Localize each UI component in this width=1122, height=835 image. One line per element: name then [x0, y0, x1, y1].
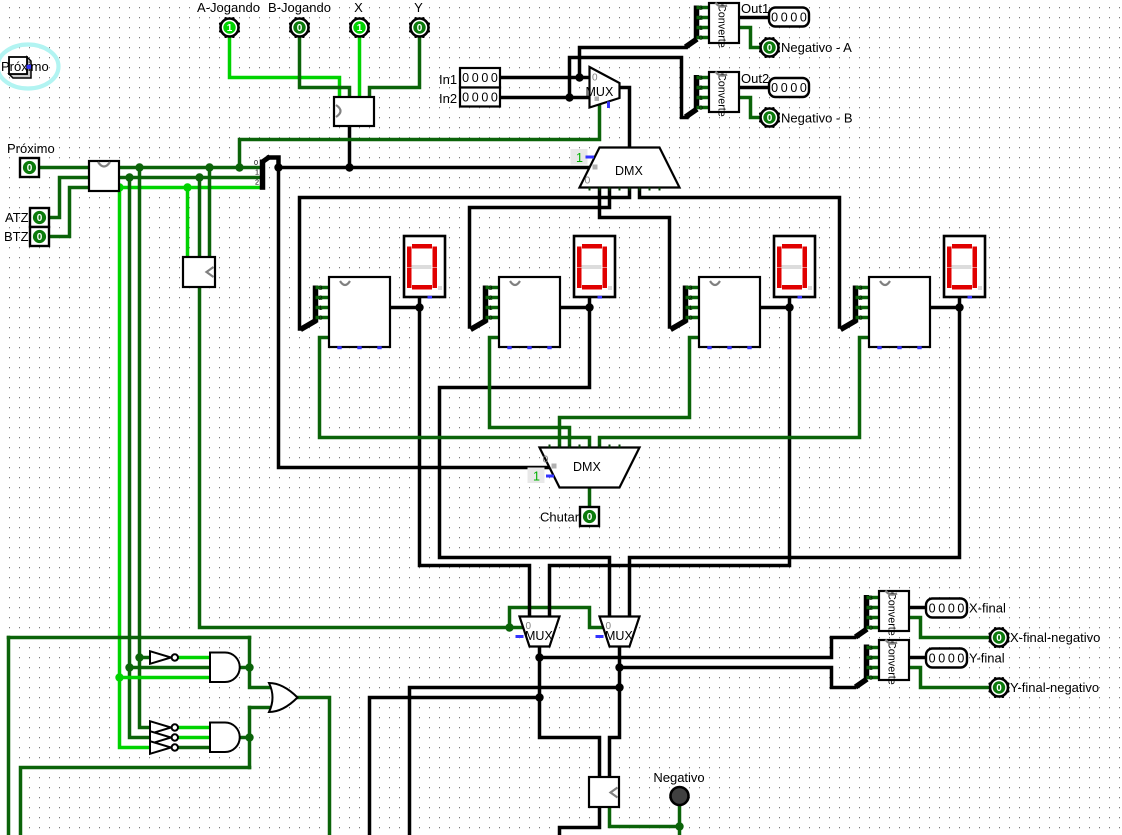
svg-text:0: 0 — [37, 232, 43, 243]
svg-text:Converte: Converte — [716, 4, 728, 48]
demux DMX2 — [540, 448, 640, 488]
wire AND2 out to OR in2 — [250, 706, 270, 710]
svg-text:0: 0 — [767, 113, 773, 124]
svg-text:X: X — [354, 0, 363, 15]
svg-text:0: 0 — [689, 315, 693, 322]
wire MUX1 select — [240, 104, 600, 168]
junction at 119.5,677.5 — [115, 673, 123, 681]
wire In1 to MUX1 — [500, 76, 590, 80]
splitter SP4 for register R4 — [853, 286, 859, 323]
wire NOT2 out to AND2 — [178, 726, 210, 730]
wire 7seg4 stub — [958, 296, 962, 308]
svg-text:0: 0 — [462, 71, 469, 85]
wire NOT3 out to AND2 — [178, 736, 210, 740]
not gate NOT2 — [150, 721, 171, 734]
svg-text:Negativo - B: Negativo - B — [781, 111, 853, 126]
svg-text:0: 0 — [996, 633, 1002, 644]
register R3 — [699, 277, 760, 347]
wire 7seg2 stub — [588, 296, 592, 308]
svg-text:0: 0 — [37, 213, 43, 224]
wire In2 to MUX1 — [500, 96, 590, 100]
wire reg4 out — [930, 306, 960, 310]
wire branch to AND1 in3 — [120, 676, 211, 680]
svg-text:0: 0 — [781, 11, 788, 25]
output pin Y — [411, 19, 429, 37]
svg-text:0: 0 — [781, 81, 788, 95]
wire U4 out black — [560, 808, 600, 835]
svg-text:0: 0 — [996, 683, 1002, 694]
wire NOT4 out to AND2 — [178, 746, 210, 750]
wire reg2 out — [560, 306, 590, 310]
svg-text:1: 1 — [699, 25, 703, 32]
junction at 139.5,167.5 — [135, 163, 143, 171]
svg-text:0: 0 — [767, 43, 773, 54]
svg-text:0: 0 — [929, 652, 936, 666]
svg-text:3: 3 — [699, 75, 703, 82]
input pin Chutar — [580, 507, 599, 526]
wire 7seg3 stub — [788, 296, 792, 308]
wire reg1 feedback to MUX3 — [420, 308, 530, 618]
wire v209 to U3 — [208, 168, 212, 257]
svg-text:0: 0 — [526, 621, 532, 632]
mux MUX4 — [600, 617, 640, 647]
input pin BTZ — [30, 227, 49, 246]
subcircuit U4 — [589, 777, 619, 807]
junction at 679.5,826.5 — [675, 822, 683, 830]
svg-text:0: 0 — [297, 23, 303, 34]
subcircuit Converte2 — [709, 72, 739, 112]
svg-text:In2: In2 — [439, 91, 457, 106]
wire AND2 out vertical — [248, 708, 252, 768]
svg-text:Próximo: Próximo — [7, 141, 55, 156]
led Negativo — [671, 787, 689, 805]
svg-text:In1: In1 — [439, 72, 457, 87]
junction at 349.5,167.5 — [345, 163, 353, 171]
wire AND1 out stub — [241, 666, 250, 670]
svg-text:Out1: Out1 — [741, 1, 769, 16]
wire SP0 bus neck — [269, 158, 279, 168]
svg-text:1: 1 — [357, 23, 363, 34]
svg-text:3: 3 — [319, 285, 323, 292]
wire X to U2 — [358, 36, 362, 97]
splitter for Converte2 — [694, 75, 700, 108]
svg-text:3: 3 — [859, 285, 863, 292]
svg-text:Próximo: Próximo — [1, 59, 49, 74]
svg-text:0: 0 — [481, 91, 488, 105]
wire reg1 enable from DMX2 — [320, 338, 590, 447]
wire Proximo to U1 — [39, 166, 89, 170]
splitter for Converte1 — [694, 6, 700, 39]
junction at 129.5,667.5 — [125, 663, 133, 671]
svg-text:Y: Y — [414, 0, 423, 15]
junction at 569.5,97.5 — [565, 93, 573, 101]
svg-text:0: 0 — [929, 602, 936, 616]
svg-text:Y-final-negativo: Y-final-negativo — [1010, 680, 1099, 695]
junction at 539.5,657.5 — [535, 653, 543, 661]
register R4 — [869, 277, 930, 347]
demux DMX1 — [580, 148, 680, 188]
wire gate wire y767 — [21, 768, 250, 835]
wire reg2 feedback to MUX4 — [440, 308, 610, 618]
subcircuit Converte4 — [879, 640, 909, 680]
svg-text:0: 0 — [319, 315, 323, 322]
svg-text:0: 0 — [587, 512, 593, 523]
seven-segment display D4 — [944, 236, 985, 297]
wire reg3 out — [760, 306, 790, 310]
wire DMX1 out to reg4 bus — [640, 188, 840, 328]
display Y-final — [926, 649, 967, 668]
selection halo — [0, 45, 59, 89]
wire In2 tap to Converte2 — [570, 58, 688, 118]
wire MUX3 out to U4 — [540, 647, 600, 777]
output pin Negativo - A — [761, 39, 779, 57]
svg-text:BTZ: BTZ — [4, 229, 29, 244]
wire Chutar to DMX2 — [588, 488, 592, 506]
svg-text:1: 1 — [533, 470, 540, 484]
svg-text:0: 0 — [790, 81, 797, 95]
svg-text:1: 1 — [689, 305, 693, 312]
wire reg3 feedback to MUX3 — [550, 308, 790, 618]
svg-text:1: 1 — [255, 168, 259, 177]
junction at 619.5,687.5 — [615, 683, 623, 691]
svg-text:A-Jogando: A-Jogando — [197, 0, 260, 15]
svg-text:0: 0 — [491, 91, 498, 105]
seven-segment display D1 — [404, 236, 445, 297]
wire left edge down 1 — [7, 638, 11, 835]
svg-text:Converte: Converte — [886, 592, 898, 636]
wire B-Jogando to U2 — [300, 36, 350, 97]
wire select over to MUX4 — [510, 608, 603, 628]
output pin X-final-negativo — [990, 629, 1008, 647]
wire v139 to NOT2 — [140, 168, 150, 728]
junction at 619.5,667.5 — [615, 663, 623, 671]
wire bottom feedback 1 — [410, 688, 620, 835]
svg-text:X-final-negativo: X-final-negativo — [1010, 630, 1100, 645]
wire Y bus to Converte4 — [620, 668, 855, 688]
wire A-Jogando to U2 — [230, 36, 340, 97]
junction at 249.5,737.5 — [245, 733, 253, 741]
subcircuit U2 — [334, 97, 374, 126]
output pin Y-final-negativo — [990, 679, 1008, 697]
wire LED wire — [678, 806, 682, 835]
wire DMX1 out to reg1 bus — [300, 188, 630, 330]
wire bus to DMX2 select — [279, 168, 549, 468]
wire DMX1 out to reg2 bus — [470, 188, 610, 328]
svg-text:0: 0 — [491, 71, 498, 85]
wire U2 out down — [348, 125, 352, 168]
junction at 509.5,627.5 — [505, 623, 513, 631]
svg-text:0: 0 — [606, 621, 612, 632]
and gate AND2 — [210, 723, 240, 753]
splitter SP3 for register R3 — [683, 286, 689, 323]
junction at 589.5,307.5 — [585, 303, 593, 311]
junction at 209.5,167.5 — [205, 163, 213, 171]
wire DMX1 out to reg3 bus — [600, 188, 670, 328]
svg-text:Negativo: Negativo — [653, 770, 704, 785]
not gate NOT3 — [150, 731, 171, 744]
display Out2 — [769, 78, 809, 97]
output pin X — [351, 19, 369, 37]
wire Converte3 to Xfinal — [909, 606, 926, 610]
splitter for Converte3 — [864, 595, 870, 628]
splitter for Converte4 — [864, 645, 870, 679]
register R2 — [499, 277, 560, 347]
wire v187 to U3 — [186, 188, 190, 257]
subcircuit Converte1 — [709, 3, 739, 43]
svg-text:Negativo - A: Negativo - A — [781, 40, 852, 55]
svg-text:DMX: DMX — [573, 460, 601, 474]
svg-text:MUX: MUX — [586, 85, 614, 99]
svg-text:0: 0 — [790, 11, 797, 25]
mux MUX1 — [590, 67, 620, 108]
svg-text:1: 1 — [319, 305, 323, 312]
splitter SP1 for register R1 — [313, 286, 319, 323]
svg-text:0: 0 — [543, 454, 549, 466]
svg-text:3: 3 — [699, 5, 703, 12]
svg-text:2: 2 — [869, 605, 873, 612]
junction at 278.5,167.5 — [274, 163, 282, 171]
wire Converte2 to NegativoB — [739, 98, 760, 118]
svg-text:0: 0 — [771, 11, 778, 25]
display Out1 — [769, 8, 809, 27]
wire Y to U2 — [370, 36, 420, 97]
svg-text:0: 0 — [771, 81, 778, 95]
subcircuit U3 — [183, 257, 215, 287]
svg-text:0: 0 — [472, 91, 479, 105]
wire bus to DMX1 select — [279, 166, 590, 170]
svg-text:2: 2 — [255, 178, 259, 187]
svg-text:0: 0 — [489, 315, 493, 322]
svg-text:0: 0 — [462, 91, 469, 105]
svg-text:Chutar: Chutar — [540, 510, 580, 525]
svg-text:0: 0 — [869, 675, 873, 682]
svg-text:B-Jogando: B-Jogando — [268, 0, 331, 15]
junction at 419.5,307.5 — [415, 303, 423, 311]
svg-text:0: 0 — [481, 71, 488, 85]
wire Converte2 to Out2 — [739, 86, 768, 90]
wire Converte1 to NegativoA — [739, 28, 760, 48]
seven-segment display D2 — [574, 236, 615, 297]
input pin Proximo — [20, 158, 39, 177]
not gate NOT4 — [150, 741, 171, 754]
svg-text:3: 3 — [869, 645, 873, 652]
svg-text:0: 0 — [699, 35, 703, 42]
output pin Negativo - B — [761, 109, 779, 127]
junction at 129.5,177.5 — [125, 173, 133, 181]
not gate NOT1 — [150, 651, 171, 664]
svg-text:1: 1 — [859, 305, 863, 312]
svg-text:0: 0 — [592, 73, 598, 84]
input pin ATZ — [30, 208, 49, 227]
svg-text:0: 0 — [957, 652, 964, 666]
svg-text:0: 0 — [472, 71, 479, 85]
svg-text:ATZ: ATZ — [5, 210, 29, 225]
svg-text:0: 0 — [869, 625, 873, 632]
svg-text:1: 1 — [869, 665, 873, 672]
wire v119 to NOT4 — [120, 188, 150, 748]
junction at 119.5,187.5 — [115, 183, 123, 191]
junction at 249.5,667.5 — [245, 663, 253, 671]
svg-text:Y-final: Y-final — [969, 651, 1005, 666]
wire X bus to Converte3 — [540, 638, 855, 658]
wire U1 out0 row — [119, 166, 261, 170]
wire Converte1 to Out1 — [739, 16, 768, 20]
subcircuit Converte3 — [879, 591, 909, 631]
svg-text:2: 2 — [319, 295, 323, 302]
svg-text:Out2: Out2 — [741, 71, 769, 86]
junction at 789.5,307.5 — [785, 303, 793, 311]
svg-text:2: 2 — [689, 295, 693, 302]
wire reg4 feedback to MUX4 — [630, 308, 960, 618]
svg-text:1: 1 — [869, 615, 873, 622]
wire U3 out to MUX3 select — [200, 288, 524, 628]
svg-text:0: 0 — [957, 602, 964, 616]
button Proximo (top-left) — [9, 57, 31, 78]
svg-text:2: 2 — [699, 85, 703, 92]
splitter SP2 for register R2 — [483, 286, 489, 323]
seven-segment display D3 — [774, 236, 815, 297]
svg-text:0: 0 — [254, 158, 258, 167]
svg-text:0: 0 — [948, 602, 955, 616]
junction at 139.5,657.5 — [135, 653, 143, 661]
wire bottom feedback 2 — [370, 698, 540, 835]
svg-text:0: 0 — [938, 602, 945, 616]
wire U1 out2 row — [119, 186, 261, 190]
svg-text:0: 0 — [699, 105, 703, 112]
svg-text:1: 1 — [489, 305, 493, 312]
subcircuit U1 — [89, 161, 119, 191]
svg-text:0: 0 — [585, 175, 591, 187]
wire branch to NOT1 — [140, 656, 150, 660]
output pin B-Jogando — [291, 19, 309, 37]
wire MUX1 out to DMX1 — [620, 88, 630, 148]
svg-text:2: 2 — [489, 295, 493, 302]
wire v129 to NOT3 — [130, 178, 150, 738]
svg-text:0: 0 — [800, 81, 807, 95]
junction at 579.5,77.5 — [575, 73, 583, 81]
wire gate wire y637 — [9, 636, 250, 640]
wire Converte3 to Xfinalneg — [909, 618, 990, 638]
wire reg4 enable from DMX2 — [600, 338, 870, 447]
wire reg1 out — [390, 306, 420, 310]
splitter SP0 1x3 — [260, 160, 266, 190]
wire Converte4 to Yfinal — [909, 656, 926, 660]
wire OR out down — [298, 698, 330, 835]
svg-text:2: 2 — [869, 655, 873, 662]
svg-text:3: 3 — [489, 285, 493, 292]
svg-text:2: 2 — [699, 15, 703, 22]
junction at 199.5,177.5 — [195, 173, 203, 181]
output pin A-Jogando — [221, 19, 239, 37]
wire MUX4 out to U4 — [610, 647, 620, 777]
wire v199 to U3 — [198, 178, 202, 257]
register R1 — [329, 277, 390, 347]
wire reg2 enable from DMX2 — [490, 338, 570, 447]
junction at 239.5,167.5 — [235, 163, 243, 171]
wire In1 tap to Converte1 — [580, 48, 687, 78]
svg-text:2: 2 — [859, 295, 863, 302]
wire 7seg1 stub — [418, 296, 422, 308]
junction at 959.5,307.5 — [955, 303, 963, 311]
svg-text:1: 1 — [576, 151, 583, 165]
svg-text:0: 0 — [800, 11, 807, 25]
svg-text:0: 0 — [859, 315, 863, 322]
wire AND2 out stub — [241, 736, 250, 740]
wire branch to AND1 in2 — [130, 666, 211, 670]
svg-text:1: 1 — [699, 95, 703, 102]
svg-text:0: 0 — [27, 163, 33, 174]
svg-text:3: 3 — [689, 285, 693, 292]
svg-text:Converte: Converte — [886, 641, 898, 685]
svg-text:Converte: Converte — [716, 73, 728, 117]
wire reg3 enable from DMX2 — [560, 338, 700, 447]
or gate OR1 — [269, 683, 298, 712]
wire U4 out green — [610, 808, 680, 827]
svg-text:3: 3 — [869, 595, 873, 602]
svg-text:0: 0 — [417, 23, 423, 34]
svg-text:DMX: DMX — [615, 164, 643, 178]
wire NOT1 out to AND1 — [178, 656, 210, 660]
display X-final — [926, 599, 967, 618]
svg-text:0: 0 — [938, 652, 945, 666]
junction at 187.5,187.5 — [183, 183, 191, 191]
wire BTZ to U1 — [49, 188, 89, 237]
wire Converte4 to Yfinalneg — [909, 668, 990, 688]
wire AND1 out to OR in1 — [250, 638, 270, 688]
svg-text:X-final: X-final — [969, 601, 1006, 616]
svg-text:0: 0 — [948, 652, 955, 666]
mux MUX3 — [520, 617, 560, 647]
svg-text:1: 1 — [227, 23, 233, 34]
wire U1 out1 row — [119, 176, 261, 180]
junction at 539.5,697.5 — [535, 693, 543, 701]
and gate AND1 — [210, 653, 240, 683]
wire ATZ to U1 — [49, 178, 89, 218]
